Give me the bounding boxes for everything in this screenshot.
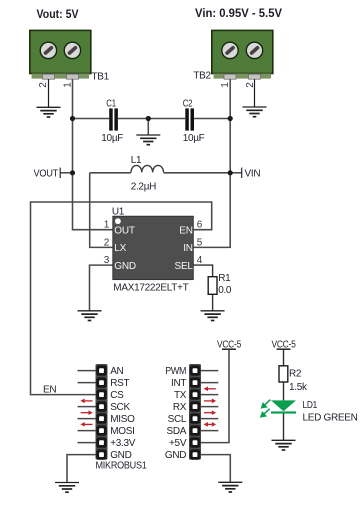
- arrow MISO right: [81, 410, 93, 415]
- node TB1/C1: [70, 116, 75, 121]
- svg-text:MOSI: MOSI: [110, 426, 134, 437]
- power VCC-5 at +5V: [217, 339, 242, 350]
- arrow TX left: [204, 386, 216, 391]
- wire R2 to LED: [283, 382, 285, 400]
- wire LED to ground: [283, 413, 285, 440]
- resistor R1: [208, 273, 232, 296]
- wire SDA stub: [201, 430, 218, 432]
- ground C mid: [136, 135, 160, 145]
- svg-text:2.2µH: 2.2µH: [131, 182, 156, 193]
- wire VOUT tick: [59, 168, 61, 178]
- svg-text:INT: INT: [171, 378, 186, 389]
- svg-text:LD1: LD1: [303, 400, 318, 411]
- wire L1 to LX: [90, 173, 113, 248]
- wire VIN tick: [241, 168, 243, 178]
- arrow RX right: [204, 399, 216, 404]
- svg-text:EN: EN: [43, 385, 56, 396]
- wire VOUT stub: [60, 172, 72, 174]
- svg-text:L1: L1: [131, 155, 142, 166]
- ground TB1 pin2: [37, 107, 61, 117]
- svg-text:SCL: SCL: [168, 414, 187, 425]
- svg-text:SCK: SCK: [110, 402, 130, 413]
- wire U1 GND pin to ground: [90, 265, 114, 311]
- LED light arrow 2: [261, 409, 270, 417]
- wire AN stub: [78, 370, 96, 372]
- LED light arrow 1: [261, 400, 270, 408]
- right header pin labels: [165, 366, 187, 461]
- svg-text:6: 6: [197, 220, 203, 231]
- resistor R2: [279, 366, 308, 393]
- wire TB2 pin2 to ground: [254, 79, 256, 107]
- svg-text:MISO: MISO: [110, 414, 135, 425]
- svg-text:C1: C1: [106, 99, 116, 110]
- svg-text:PWM: PWM: [165, 366, 186, 377]
- arrow SCK left: [80, 399, 92, 404]
- wire PWM stub: [201, 370, 218, 372]
- junction node dots: [70, 116, 233, 175]
- svg-text:U1: U1: [112, 207, 125, 218]
- svg-text:+3.3V: +3.3V: [110, 438, 136, 449]
- svg-text:GND: GND: [110, 450, 131, 461]
- wire TB1 pin1 down to U1 OUT: [73, 79, 114, 230]
- wire SCL stub: [201, 418, 218, 420]
- svg-text:1.5k: 1.5k: [289, 382, 308, 393]
- wire left GND to ground: [67, 455, 96, 483]
- svg-text:3: 3: [104, 255, 110, 266]
- connector MIKROBUS1 left header: [96, 364, 108, 460]
- svg-text:SEL: SEL: [174, 261, 193, 272]
- LED LD1: [261, 400, 358, 424]
- wire SCK stub: [78, 406, 96, 408]
- svg-text:VIN: VIN: [245, 169, 261, 180]
- svg-text:VOUT: VOUT: [34, 169, 59, 180]
- wire RST stub: [78, 382, 96, 384]
- wire VIN stub: [230, 172, 242, 174]
- wire C-row horizontal left: [73, 118, 110, 120]
- svg-text:2: 2: [38, 82, 49, 88]
- svg-text:LED GREEN: LED GREEN: [303, 413, 358, 424]
- ground U1 GND: [78, 311, 102, 321]
- terminal block TB2: [212, 30, 273, 79]
- wire RX stub: [201, 406, 218, 408]
- wire L1 left lead: [90, 172, 131, 174]
- svg-text:GND: GND: [114, 261, 136, 272]
- wire right GND to ground: [201, 455, 230, 483]
- ground LED: [272, 440, 296, 450]
- wire MOSI stub: [78, 430, 96, 432]
- svg-text:MAX17222ELT+T: MAX17222ELT+T: [113, 283, 188, 294]
- wire EN net: [31, 202, 212, 395]
- wire VCC-5 to R2: [283, 350, 285, 366]
- svg-text:10µF: 10µF: [183, 133, 205, 144]
- terminal block TB1: [30, 30, 91, 79]
- node VIN: [228, 170, 233, 175]
- capacitor C1: [101, 99, 123, 144]
- wire R1 to ground: [212, 294, 214, 311]
- svg-text:Vin: 0.95V - 5.5V: Vin: 0.95V - 5.5V: [195, 8, 282, 20]
- connector MIKROBUS1 right header: [189, 364, 201, 460]
- svg-text:+5V: +5V: [169, 438, 187, 449]
- wire +3.3V stub: [78, 442, 96, 444]
- svg-text:1: 1: [104, 220, 110, 231]
- svg-text:Vout: 5V: Vout: 5V: [37, 9, 79, 21]
- arrow SDA double: [204, 422, 217, 427]
- arrow SCL right: [204, 410, 216, 415]
- arrow MOSI left: [80, 422, 92, 427]
- left header pin labels: [110, 366, 136, 461]
- svg-text:R1: R1: [218, 273, 231, 284]
- svg-text:R2: R2: [289, 369, 302, 380]
- svg-text:TB2: TB2: [193, 71, 211, 82]
- svg-text:4: 4: [197, 255, 203, 266]
- svg-text:SDA: SDA: [167, 426, 187, 437]
- wire IN to VIN node: [193, 173, 230, 248]
- wire TB1 pin2 to ground: [48, 79, 50, 107]
- wire TX stub: [201, 394, 218, 396]
- ground mikrobus left: [55, 483, 79, 493]
- svg-text:EN: EN: [179, 225, 193, 236]
- ground R1: [201, 311, 225, 321]
- wire +5V to VCC-5: [201, 350, 229, 443]
- svg-text:0.0: 0.0: [218, 285, 232, 296]
- wire mid junction to ground: [147, 119, 149, 136]
- svg-text:MIKROBUS1: MIKROBUS1: [96, 461, 148, 472]
- svg-text:AN: AN: [110, 366, 123, 377]
- wire C-row horizontal mid: [118, 118, 185, 120]
- svg-text:LX: LX: [114, 243, 126, 254]
- svg-text:IN: IN: [183, 243, 193, 254]
- svg-text:2: 2: [104, 237, 110, 248]
- node TB2/C2: [228, 116, 233, 121]
- inductor L1: [131, 155, 164, 193]
- wire C-row horizontal right: [194, 118, 230, 120]
- svg-text:GND: GND: [165, 450, 186, 461]
- wire SEL to R1: [193, 265, 212, 277]
- svg-text:TB1: TB1: [92, 72, 110, 83]
- wire INT stub: [201, 382, 218, 384]
- svg-text:OUT: OUT: [114, 225, 135, 236]
- svg-text:5: 5: [197, 237, 203, 248]
- ground TB2 pin2: [243, 107, 267, 117]
- svg-text:TX: TX: [174, 390, 187, 401]
- svg-text:C2: C2: [183, 99, 193, 110]
- svg-text:1: 1: [220, 82, 231, 88]
- power VCC-5 at R2: [272, 339, 297, 350]
- svg-text:RST: RST: [110, 378, 129, 389]
- capacitor C2: [183, 99, 205, 144]
- node VOUT: [70, 170, 75, 175]
- wire L1 right lead to VIN node: [164, 172, 231, 174]
- svg-text:CS: CS: [110, 390, 124, 401]
- wire MISO stub: [78, 418, 96, 420]
- svg-text:10µF: 10µF: [101, 133, 123, 144]
- ground mikrobus right: [218, 482, 242, 492]
- node C mid ground: [146, 116, 151, 121]
- svg-text:RX: RX: [173, 402, 187, 413]
- op-amp U1 body: [113, 216, 194, 279]
- wire TB2 pin1 down to VIN node: [229, 79, 231, 173]
